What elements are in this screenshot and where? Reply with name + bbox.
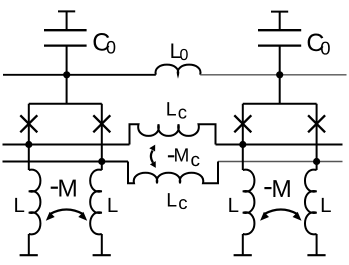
svg-text:c: c [191,150,201,171]
label -M (right qubit) [264,187,271,189]
mutual coupling arrow -Mc (vertical) [151,151,153,163]
svg-text:L: L [166,190,177,212]
inductor L0 [156,65,201,75]
Josephson junction X (right qubit, right) [308,115,325,132]
mutual coupling arrow -M (right qubit) [264,210,297,215]
svg-text:L: L [228,194,239,217]
ground T-bar (left qubit, left) [20,254,38,256]
wire main bus (right segment) [200,74,346,76]
wire upper bus (left segment) [3,144,130,146]
svg-text:0: 0 [180,47,189,64]
svg-text:M: M [271,176,291,203]
wire capacitor to SQUID loop top [279,46,281,104]
capacitor C0 (right) [258,30,301,45]
svg-text:M: M [57,176,77,203]
ground T-bar (right qubit, right) [307,254,325,256]
wire inductor to ground (left qubit, left) [28,234,30,255]
label Lc (top) [166,98,187,122]
wire capacitor to SQUID loop top [66,46,68,104]
wire terminal to capacitor [66,11,68,30]
label C0 (right) [306,29,330,59]
svg-text:L: L [107,194,118,217]
open terminal T-bar (right C0 top) [271,11,288,13]
wire terminal to capacitor [279,12,281,31]
wire inductor to ground (right qubit, right) [316,234,318,255]
wire right branch (right qubit) [316,104,318,170]
node dot on main bus (right) [276,71,283,78]
open terminal T-bar (left C0 top) [58,10,75,12]
node dot lower bus (right qubit, right branch) [313,158,320,165]
wire SQUID loop top (left) [29,103,102,105]
label C0 (left) [92,29,116,58]
svg-text:L: L [14,194,25,217]
mutual coupling arrow -M (left qubit) [50,210,83,215]
svg-text:0: 0 [320,38,330,59]
wire lower bus (right segment) [218,161,343,163]
wire right branch (left qubit) [101,104,103,170]
ground T-bar (left qubit, right) [93,254,111,256]
inductor L (left qubit, left; bumps right) [29,170,41,235]
node dot lower bus (left qubit, right branch) [98,158,105,165]
svg-text:L: L [166,98,177,120]
svg-text:M: M [174,146,190,167]
node dot upper bus (left qubit, left branch) [25,141,32,148]
ground T-bar (right qubit, left) [234,254,252,256]
wire main bus (left segment) [3,74,156,76]
wire inductor to ground (left qubit, right) [101,234,103,255]
inductor Lc (top, bumps down) [130,124,216,144]
wire inductor to ground (right qubit, left) [242,234,244,255]
label L0 [170,40,189,64]
inductor L (right qubit, left; bumps right) [243,170,255,235]
svg-text:c: c [178,102,187,123]
label Lc (bottom) [166,190,187,213]
svg-text:0: 0 [106,38,116,58]
node dot upper bus (right qubit, left branch) [239,141,246,148]
inductor L (right qubit, right; bumps left) [305,170,317,235]
capacitor C0 (left) [44,30,87,45]
label -M (left qubit) [51,187,58,189]
inductor L (left qubit, right; bumps left) [90,170,102,235]
svg-text:c: c [178,192,187,213]
Josephson junction X (right qubit, left) [234,115,251,132]
wire upper bus (right segment) [216,144,343,146]
Josephson junction X (left qubit, left) [20,115,37,132]
wire left branch (left qubit) [28,104,30,170]
wire left branch (right qubit) [242,104,244,170]
Josephson junction X (left qubit, right) [93,115,110,132]
node dot on main bus (left) [63,71,70,78]
inductor Lc (bottom, bumps up) [128,162,218,184]
wire SQUID loop top (right) [243,103,317,105]
svg-text:L: L [320,194,331,217]
wire lower bus (left segment) [3,161,129,163]
label -Mc [168,155,174,157]
